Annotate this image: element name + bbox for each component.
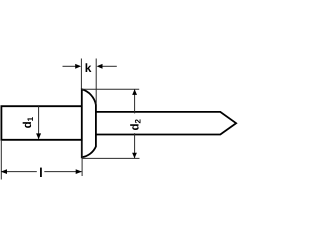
svg-text:l: l: [39, 165, 43, 180]
k extension line right: [95, 59, 97, 105]
k extension line left: [80, 59, 82, 89]
l arrowhead right: [76, 169, 82, 174]
rivet head outline: [82, 89, 96, 157]
k dimension right tail: [102, 65, 117, 67]
d2 label background: [130, 113, 140, 133]
d2 extension line bottom: [82, 157, 140, 159]
rivet body outline: [1, 106, 81, 140]
d2 arrowhead up: [132, 89, 137, 95]
l dimension line left segment: [1, 171, 37, 173]
k dimension right arrowhead: [97, 64, 103, 69]
d2 extension line top: [82, 88, 140, 90]
k dimension left arrowhead: [75, 64, 81, 69]
mandrel outline with pointed tip: [96, 112, 236, 135]
d1 dimension line: [38, 106, 40, 139]
svg-text:k: k: [85, 61, 92, 75]
d2 dimension line: [134, 89, 136, 158]
k dimension left tail: [63, 65, 77, 67]
l extension line left: [0, 141, 2, 180]
l dimension line right segment: [44, 171, 81, 173]
d1 arrowhead down: [36, 133, 41, 139]
l arrowhead left: [1, 169, 7, 174]
d2 arrowhead down: [132, 153, 137, 159]
l extension line right: [81, 141, 83, 176]
